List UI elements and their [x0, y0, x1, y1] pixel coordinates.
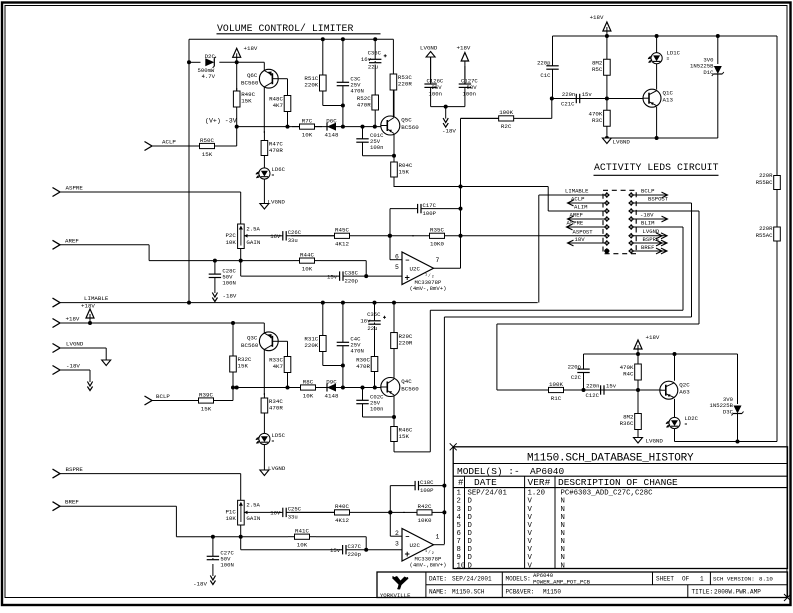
wire: ASPRE — [60, 191, 241, 193]
resistor R39C — [190, 391, 222, 412]
wire: C3C to V+ rail — [342, 106, 344, 127]
junction — [550, 97, 554, 101]
wire: R51C bottom jog — [322, 91, 324, 106]
capacitor C1C — [546, 36, 558, 99]
svg-text:6: 6 — [457, 530, 461, 538]
svg-text:ACLP: ACLP — [162, 139, 176, 146]
svg-text:D2C: D2C — [205, 53, 216, 60]
wire — [393, 511, 405, 513]
wire: R1C line to Q2C base — [497, 389, 662, 391]
svg-text:470N: 470N — [350, 88, 363, 95]
svg-text:(V+) -3V: (V+) -3V — [205, 118, 237, 125]
wire: to op-amp - input — [390, 535, 402, 537]
transistor Q4C — [381, 378, 419, 397]
svg-text:D: D — [468, 562, 473, 570]
svg-text:Q2C: Q2C — [679, 381, 690, 388]
wire: LD2C to rail — [674, 429, 676, 442]
svg-text:R39C: R39C — [199, 391, 213, 398]
resistor R31C — [304, 303, 326, 352]
wire: LED circuit bottom rail A — [607, 137, 718, 139]
resistor R41C — [288, 528, 316, 549]
wire: C17C left — [390, 208, 416, 210]
svg-text:+18V: +18V — [457, 45, 471, 52]
connector pin — [604, 233, 610, 239]
junction — [341, 104, 345, 108]
title block — [377, 572, 791, 601]
junction — [361, 386, 365, 390]
wire: left rail (LIMABLE to top rail A) — [188, 39, 190, 302]
svg-text:A63: A63 — [679, 389, 690, 396]
svg-text:LD5C: LD5C — [272, 432, 286, 439]
svg-text:D: D — [468, 498, 473, 506]
svg-text:N: N — [561, 522, 565, 530]
svg-text:15K: 15K — [399, 169, 410, 176]
svg-text:AP6040: AP6040 — [530, 466, 565, 477]
svg-text:R3C: R3C — [592, 117, 603, 124]
svg-text:ASPOST: ASPOST — [573, 228, 594, 235]
svg-text:-18V: -18V — [442, 128, 456, 135]
svg-text:1: 1 — [457, 490, 462, 498]
resistor R40C — [291, 503, 393, 524]
wire — [105, 348, 107, 360]
svg-text:NAME:: NAME: — [429, 589, 447, 596]
junction — [341, 301, 345, 305]
svg-text:OF: OF — [682, 575, 690, 582]
svg-text:BCLP: BCLP — [641, 188, 655, 195]
wire — [222, 400, 233, 402]
wire: to P2C top — [240, 192, 242, 224]
junction — [655, 136, 659, 140]
svg-text:+: + — [405, 273, 410, 283]
port LIMABLE — [53, 295, 109, 307]
svg-text:R50C: R50C — [200, 137, 214, 144]
svg-text:V: V — [528, 554, 533, 562]
svg-text:(4mV-,8mV+): (4mV-,8mV+) — [410, 562, 447, 569]
junction — [239, 259, 243, 263]
resistor R33C — [269, 356, 291, 388]
svg-text:33u: 33u — [288, 514, 298, 521]
wire: Q2C collector — [674, 354, 676, 381]
junction — [341, 125, 345, 129]
svg-text:D: D — [468, 506, 473, 514]
connector J1 (dashed box) — [603, 190, 636, 253]
wire: to R2C — [461, 117, 512, 119]
capacitor C21C — [553, 94, 607, 103]
svg-text:4K7: 4K7 — [273, 363, 284, 370]
wire — [321, 260, 366, 262]
svg-text:D9C: D9C — [326, 378, 337, 385]
wire: feedback vertical — [389, 209, 391, 260]
wire: BCLP — [152, 400, 190, 402]
junction — [388, 510, 392, 514]
svg-text:Q1C: Q1C — [663, 89, 674, 96]
svg-text:+: + — [405, 550, 410, 560]
svg-text:BREF: BREF — [641, 244, 654, 251]
junction — [187, 60, 191, 64]
svg-text:R4C: R4C — [623, 371, 634, 378]
svg-text:15v: 15v — [582, 91, 593, 98]
svg-text:ACTIVITY LEDS CIRCUIT: ACTIVITY LEDS CIRCUIT — [594, 162, 719, 173]
junction — [341, 37, 345, 41]
wire: to R41C — [241, 536, 288, 538]
transistor Q2C — [660, 381, 690, 399]
capacitor C126C — [424, 57, 436, 107]
wire: LED to LVGND — [263, 180, 265, 204]
svg-text:LVGND: LVGND — [420, 45, 438, 52]
svg-text:9: 9 — [457, 554, 461, 562]
junction — [636, 388, 640, 392]
wire: (V+) rail B — [237, 387, 381, 389]
wire: up to V+ rail — [236, 127, 238, 146]
wire: D1C to bottom rail — [717, 74, 719, 138]
wire: decoupling join — [431, 106, 465, 108]
svg-text:2: 2 — [395, 530, 399, 537]
svg-text:2000W.PWR.AMP: 2000W.PWR.AMP — [714, 589, 761, 596]
svg-text:LD1C: LD1C — [667, 50, 681, 57]
svg-text:100n: 100n — [463, 90, 476, 97]
svg-text:¹⁄₂: ¹⁄₂ — [425, 548, 435, 555]
svg-text:10K0: 10K0 — [418, 517, 432, 524]
junction — [361, 125, 365, 129]
wire: ASPOST line — [461, 235, 605, 237]
svg-text:7: 7 — [436, 257, 440, 264]
svg-text:≡: ≡ — [272, 174, 275, 179]
svg-text:1: 1 — [700, 575, 704, 582]
resistor R8C — [293, 378, 323, 399]
svg-text:BC560: BC560 — [241, 342, 259, 349]
wire: output node vertical — [460, 118, 462, 268]
ground LVGND — [102, 360, 111, 366]
svg-text:≡: ≡ — [272, 440, 275, 445]
svg-text:100K: 100K — [499, 109, 513, 116]
wire: AREF — [60, 244, 149, 246]
wire: LIMABLE drop — [538, 195, 540, 303]
svg-text:SEP/24/2001: SEP/24/2001 — [452, 575, 492, 582]
svg-text:470R: 470R — [356, 363, 370, 370]
svg-text:BSPRE: BSPRE — [66, 466, 84, 473]
svg-text:R44C: R44C — [300, 251, 314, 258]
svg-text:N: N — [561, 530, 565, 538]
junction — [235, 60, 239, 64]
potentiometer P2C — [225, 224, 260, 249]
svg-text:D: D — [468, 530, 473, 538]
wire: Q6C emitter up — [263, 62, 265, 70]
wire: wiper to C26C — [244, 235, 281, 237]
svg-text:470R: 470R — [269, 147, 283, 154]
svg-text:220R: 220R — [399, 339, 413, 346]
wire: BSPOST down to op-amp B output node — [443, 317, 445, 544]
svg-text:C38C: C38C — [345, 269, 359, 276]
wire: LIMABLE rail — [60, 302, 538, 304]
capacitor C26C — [270, 229, 334, 244]
wire: -18V B — [60, 369, 90, 371]
junction — [239, 535, 243, 539]
svg-text:SCH VERSION:: SCH VERSION: — [713, 575, 755, 582]
svg-text:220R: 220R — [759, 225, 773, 232]
junction — [655, 34, 659, 38]
junction — [459, 207, 463, 211]
svg-text:100P: 100P — [423, 210, 437, 217]
svg-text:10K: 10K — [225, 239, 236, 246]
svg-text:-18V: -18V — [223, 293, 237, 300]
svg-text:DATE:: DATE: — [429, 575, 447, 582]
wire: +18V to R49C — [236, 62, 238, 91]
wire: wiper to C25C — [244, 511, 281, 513]
svg-text:16V: 16V — [270, 233, 281, 240]
svg-text:C17C: C17C — [423, 202, 437, 209]
junction — [231, 321, 235, 325]
capacitor C127C — [459, 66, 471, 107]
svg-text:BC560: BC560 — [241, 79, 259, 86]
svg-text:N: N — [561, 538, 565, 546]
power +18V arrow — [233, 45, 258, 62]
svg-text:≡: ≡ — [685, 423, 688, 428]
svg-text:470R: 470R — [269, 405, 283, 412]
wire: LVGND to C126C — [430, 57, 432, 83]
junction — [231, 386, 235, 390]
wire — [263, 165, 265, 168]
junction — [636, 352, 640, 356]
svg-text:220K: 220K — [304, 342, 318, 349]
svg-text:220R: 220R — [398, 81, 412, 88]
port +18V — [53, 316, 80, 328]
svg-text:4.7V: 4.7V — [202, 73, 216, 80]
svg-text:10K: 10K — [302, 265, 313, 272]
svg-text:PC#6303_ADD_C27C,C28C: PC#6303_ADD_C27C,C28C — [561, 490, 654, 498]
wire: Q3C collector down — [263, 350, 265, 395]
wire: pot to C37C line — [240, 537, 242, 550]
diode D2C — [205, 53, 216, 68]
svg-text:V: V — [528, 506, 533, 514]
svg-text:1: 1 — [436, 533, 440, 540]
resistor R50C — [192, 137, 222, 158]
wire: to R44C — [241, 260, 293, 262]
svg-text:V: V — [528, 538, 533, 546]
svg-text:2.5A: 2.5A — [246, 502, 260, 509]
svg-text:-18V: -18V — [640, 212, 654, 219]
svg-text:D: D — [468, 546, 473, 554]
junction — [213, 259, 217, 263]
svg-text:18V: 18V — [575, 236, 586, 243]
power -18V arrow — [442, 107, 456, 135]
wire: pot bottom — [240, 525, 242, 537]
svg-text:GAIN: GAIN — [246, 239, 260, 246]
wire: LED to LVGND — [263, 445, 265, 470]
svg-text:10K0: 10K0 — [430, 241, 444, 248]
wire: BREF to pot bottom — [176, 536, 240, 538]
wire: op-amp B output — [434, 544, 445, 546]
junction — [364, 274, 368, 278]
svg-text:15K: 15K — [399, 433, 410, 440]
op-amp U2C op-amp A (U2C) — [395, 252, 446, 292]
junction — [286, 386, 290, 390]
Yorkville logo — [380, 576, 411, 599]
wire: to P1C top — [240, 474, 242, 501]
capacitor C01C — [356, 127, 384, 156]
resistor R2C — [461, 109, 552, 130]
svg-text:100n: 100n — [429, 90, 442, 97]
capacitor C27C — [207, 537, 235, 569]
junction — [459, 234, 463, 238]
wire: row3 across — [497, 323, 699, 325]
svg-text:4: 4 — [457, 514, 462, 522]
svg-text:220p: 220p — [568, 363, 581, 370]
junction — [321, 301, 325, 305]
svg-text:R41C: R41C — [295, 528, 309, 535]
svg-text:LD2C: LD2C — [685, 415, 699, 422]
svg-text:7: 7 — [457, 538, 461, 546]
svg-text:470R: 470R — [357, 102, 371, 109]
junction — [286, 125, 290, 129]
wire: to C1C — [552, 36, 554, 62]
net row3 wire — [634, 210, 700, 212]
wire: ACLP — [152, 145, 192, 147]
table M1150.SCH DATABASE HISTORY — [450, 443, 788, 570]
wire: R55 chain vertical — [776, 36, 778, 442]
svg-text:LVGND: LVGND — [646, 437, 664, 444]
zener diode D1C — [712, 66, 724, 76]
capacitor C17C — [416, 202, 461, 217]
junction — [442, 484, 446, 488]
LED LD2C — [666, 415, 699, 429]
resistor R35C — [412, 227, 462, 248]
wire: BREF — [60, 505, 176, 507]
LED LD6C — [256, 166, 286, 179]
capacitor C2C — [577, 354, 589, 390]
svg-text:220p: 220p — [537, 59, 550, 66]
resistor R46C — [391, 423, 413, 452]
svg-text:Q5C: Q5C — [401, 117, 412, 124]
wire: AREF to pot bottom — [149, 260, 241, 262]
junction — [364, 548, 368, 552]
LED LD5C — [256, 432, 286, 445]
svg-text:16V: 16V — [270, 510, 281, 517]
junction — [388, 234, 392, 238]
svg-text:TITLE:: TITLE: — [692, 589, 714, 596]
wire: C35C to R30C — [374, 326, 376, 357]
power +18V arrow — [634, 334, 660, 354]
ground LVGND — [602, 138, 630, 146]
connector pin — [604, 192, 610, 198]
svg-text:1.20: 1.20 — [528, 490, 546, 498]
power +18V arrow — [81, 303, 95, 324]
wire: BLIM to R46C — [394, 451, 430, 453]
svg-text:(4mV-,8mV+): (4mV-,8mV+) — [410, 285, 447, 292]
wire: C02C to emitter node — [363, 416, 395, 418]
svg-text:#: # — [458, 478, 464, 488]
junction — [716, 34, 720, 38]
capacitor C35C — [368, 303, 386, 325]
svg-text:R36C: R36C — [620, 420, 634, 427]
wire: R53C to Q5C collector — [393, 90, 395, 118]
svg-text:10K: 10K — [302, 131, 313, 138]
connector pin — [604, 200, 610, 206]
svg-text:15K: 15K — [202, 151, 213, 158]
junction — [187, 301, 191, 305]
svg-text:16v: 16v — [360, 318, 371, 325]
corner marker — [450, 443, 457, 450]
svg-text:R2C: R2C — [501, 123, 512, 130]
capacitor C02C — [356, 388, 384, 418]
power -18V arrow — [193, 564, 215, 588]
svg-text:R1C: R1C — [551, 395, 562, 402]
svg-text:10K: 10K — [297, 542, 308, 549]
svg-text:220R: 220R — [759, 172, 773, 179]
svg-text:BC560: BC560 — [401, 385, 419, 392]
wire: LED circuit bottom rail B — [675, 441, 778, 443]
svg-text:C25C: C25C — [288, 506, 302, 513]
zener diode D3C — [732, 406, 744, 416]
svg-text:¹⁄₂: ¹⁄₂ — [425, 272, 435, 279]
svg-text:YORKVILLE: YORKVILLE — [380, 592, 411, 599]
svg-text:15K: 15K — [238, 363, 249, 370]
svg-text:D: D — [468, 538, 473, 546]
svg-text:ASPRE: ASPRE — [66, 185, 84, 192]
resistor R34C — [261, 393, 283, 427]
junction — [392, 154, 396, 158]
svg-text:+18V: +18V — [244, 45, 258, 52]
wire: BSPRE — [60, 473, 241, 475]
svg-text:N: N — [561, 546, 565, 554]
capacitor C25C — [270, 506, 334, 521]
svg-text:SHEET: SHEET — [656, 575, 674, 582]
wire: +18V B — [60, 322, 264, 324]
wire: op-amp A output — [434, 267, 461, 269]
wire: Q3C emitter up — [263, 323, 265, 333]
wire: Q1C emitter — [656, 107, 658, 138]
svg-text:10K: 10K — [225, 515, 236, 522]
capacitor C28C — [209, 261, 237, 287]
resistor R47C — [261, 131, 283, 165]
resistor R36C — [620, 390, 642, 438]
junction — [388, 234, 392, 238]
wire: to op-amp + input — [366, 275, 402, 277]
wire: LED circuit +18V rail A — [553, 35, 778, 37]
svg-text:3: 3 — [395, 540, 399, 547]
svg-text:Q6C: Q6C — [247, 72, 258, 79]
resistor R42C — [403, 503, 446, 524]
svg-text:V: V — [528, 514, 533, 522]
svg-text:A13: A13 — [663, 97, 674, 104]
resistor R45C — [291, 227, 393, 248]
svg-text:22u: 22u — [368, 63, 378, 70]
wire: C01C to emitter node — [363, 155, 395, 157]
svg-text:V: V — [528, 546, 533, 554]
svg-text:2.5A: 2.5A — [246, 225, 260, 232]
resistor R51C — [304, 39, 326, 91]
transistor Q5C — [381, 116, 419, 135]
svg-text:LVGND: LVGND — [643, 228, 660, 235]
svg-text:4148: 4148 — [325, 131, 339, 138]
wire: LED to Q1C — [656, 64, 658, 90]
svg-text:100N: 100N — [222, 279, 235, 286]
connector pin — [604, 248, 610, 254]
wire: LED circuit rail B — [584, 353, 738, 355]
svg-text:C18C: C18C — [420, 479, 434, 486]
svg-text:33u: 33u — [288, 237, 298, 244]
power +18V arrow (C127C) — [457, 45, 471, 67]
svg-text:15v: 15v — [330, 547, 341, 554]
svg-text:+18V: +18V — [66, 316, 80, 323]
diode D9C — [325, 378, 339, 399]
resistor R1C — [540, 381, 572, 402]
op-amp U2C op-amp B (U2C) — [395, 529, 446, 569]
junction — [442, 510, 446, 514]
wire — [323, 365, 343, 367]
svg-text:8: 8 — [457, 546, 461, 554]
resistor R55BC — [774, 165, 781, 200]
svg-text:-18V: -18V — [66, 363, 80, 370]
